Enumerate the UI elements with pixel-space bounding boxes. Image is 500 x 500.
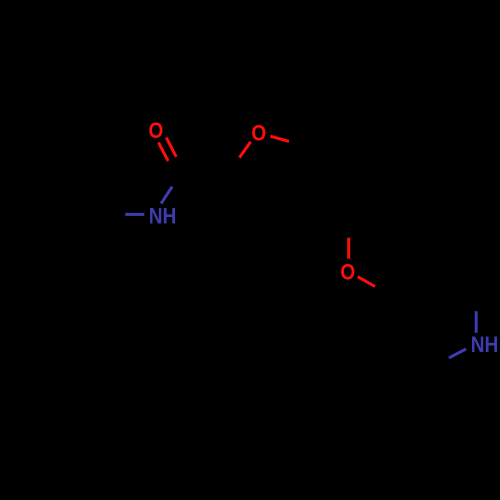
- N-methyl bond (blue half): [125, 213, 144, 216]
- furan O-C2 bond (red half): [239, 142, 250, 158]
- ether O-piperidine C4 bond (red half): [358, 277, 375, 287]
- amide N-C bond (blue half): [161, 187, 172, 204]
- CH2-O ether bond (red half, vertical): [347, 238, 350, 259]
- piperidine N-C6 bond (blue half): [449, 349, 466, 358]
- svg-text:NH: NH: [149, 204, 177, 229]
- C=O double bond line 2 (upper): [166, 138, 176, 157]
- furan O-C5 bond (red half): [270, 136, 289, 141]
- piperidine N-C2 bond (blue half, vertical): [475, 311, 478, 333]
- svg-text:O: O: [340, 259, 355, 284]
- svg-text:NH: NH: [471, 332, 499, 357]
- C=O double bond line 1 (lower): [159, 142, 169, 161]
- svg-text:O: O: [149, 118, 164, 143]
- svg-text:O: O: [251, 121, 266, 146]
